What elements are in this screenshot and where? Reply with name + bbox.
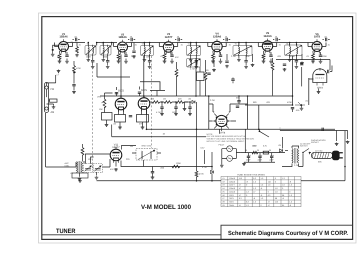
capacitor C51	[237, 101, 240, 102]
label T7 lab	[65, 162, 70, 165]
wire tube-stub 63.5	[55, 43, 73, 47]
wire v-205seg	[205, 60, 207, 96]
svg-text:85: 85	[282, 204, 284, 207]
resistor R34	[102, 113, 113, 121]
capacitor Ct131	[131, 38, 132, 41]
svg-text:-8: -8	[246, 180, 248, 183]
wire wt178	[175, 39, 182, 41]
node j239-96	[238, 95, 240, 97]
capacitor can-cap 193.5	[195, 61, 198, 62]
svg-text:47: 47	[239, 187, 241, 190]
wire v-345 down	[344, 131, 346, 181]
svg-text:V6: V6	[222, 194, 224, 197]
svg-text:47: 47	[239, 184, 241, 187]
resistor R13 cathode	[212, 54, 215, 60]
ground G71	[242, 163, 246, 166]
wire tube-stub 267.5	[258, 43, 276, 47]
courtesy box	[221, 225, 353, 239]
node j196-96	[195, 95, 197, 97]
label lt131	[130, 36, 134, 39]
wire R1 top	[73, 61, 75, 84]
capacitor C70 filter	[247, 156, 250, 157]
wire w-v10	[309, 68, 320, 79]
label cap40c	[269, 159, 274, 162]
wire wc4176	[175, 102, 177, 113]
ground G25	[319, 60, 323, 63]
svg-text:33K: 33K	[318, 161, 322, 164]
wire w-c51	[238, 96, 240, 104]
power transformer T9	[292, 148, 299, 164]
svg-text:V4: V4	[222, 187, 224, 190]
wire wt276	[273, 39, 280, 41]
coil L1	[141, 151, 144, 159]
wire lamp loop	[222, 149, 241, 159]
svg-text:2.2M: 2.2M	[210, 99, 215, 102]
label pl lab	[219, 144, 226, 147]
resistor R10 cathode	[58, 54, 61, 60]
svg-text:0: 0	[246, 194, 247, 197]
ground G13	[211, 60, 215, 63]
wire w-tv0	[60, 51, 68, 60]
capacitor Ct276	[276, 38, 277, 41]
tube V4 12BA6 2nd IF	[212, 33, 222, 54]
wire B+ bus y96	[100, 95, 293, 97]
resistor R42	[164, 101, 172, 104]
resistor R14 cathode	[262, 54, 265, 60]
ground G-227	[225, 65, 229, 68]
node j208.8-96	[208, 95, 210, 97]
wire w-r22	[199, 67, 201, 96]
ground G-board	[78, 180, 82, 183]
resistor R62	[81, 148, 84, 156]
label R1 val	[76, 67, 81, 70]
capacitor C71 filter	[258, 156, 261, 157]
label AM ant	[51, 111, 55, 114]
wire h-90 seg	[150, 91, 165, 97]
wire w-g51	[185, 102, 189, 108]
ground G32	[141, 126, 145, 129]
svg-text:20: 20	[269, 149, 271, 152]
label lt276	[275, 36, 279, 39]
wire v-227seg	[226, 54, 228, 60]
wire v-204 stub	[204, 150, 206, 164]
wire wt325.5	[323, 39, 330, 41]
wire top-bus 271-313	[271, 43, 313, 46]
label c71v	[261, 154, 263, 157]
svg-text:-8: -8	[261, 194, 263, 197]
capacitor C13 bypass	[219, 55, 222, 56]
label phono lab	[311, 139, 326, 142]
wire v-292	[292, 56, 294, 105]
ground G22	[170, 60, 174, 63]
svg-text:V5: V5	[222, 190, 224, 193]
wire conv in	[46, 113, 76, 167]
svg-text:19T8: 19T8	[229, 194, 233, 197]
wire can-under 293	[290, 55, 297, 60]
node j-196-129	[196, 129, 198, 131]
ground G23	[283, 68, 287, 71]
resistor R15 cathode	[312, 54, 315, 60]
svg-text:47K: 47K	[139, 123, 143, 126]
ground G4176	[174, 113, 178, 116]
svg-text:6.3: 6.3	[253, 177, 256, 180]
wire tube-stub 317.0	[308, 43, 326, 47]
wire wc4190	[189, 102, 191, 113]
IF transformer T4 2nd IF upper	[187, 45, 201, 56]
wire w-v10 gnd	[318, 89, 320, 91]
node bus-j 190.7	[190, 42, 192, 44]
ground G-R1	[72, 91, 76, 94]
svg-text:0: 0	[261, 204, 262, 207]
wire v-347	[347, 131, 349, 140]
svg-text:TUBE SOCKET VOLTAGES: TUBE SOCKET VOLTAGES	[237, 173, 265, 176]
svg-text:98: 98	[282, 194, 284, 197]
label bus-lbl 134.5	[135, 43, 138, 46]
ground G21	[124, 60, 128, 63]
tube V11 12AT7 osc	[110, 147, 122, 163]
label vol lab	[97, 96, 102, 99]
ground G-214	[212, 69, 216, 72]
wire top-bus 126-166	[126, 43, 166, 46]
ground G4190	[188, 113, 192, 116]
node j258.8-129.3	[258, 129, 260, 131]
arrow T8 tuning	[138, 150, 155, 160]
resistor R32 grid	[137, 115, 149, 123]
wire v-146 drop	[146, 110, 148, 129]
ground G12	[163, 60, 167, 63]
ground G34	[105, 124, 109, 127]
wire h-129	[147, 128, 336, 130]
capacitor C-v7top	[115, 93, 118, 94]
node j190-102	[189, 101, 191, 103]
pilot lamp PL1	[227, 146, 233, 152]
node j162-102	[161, 101, 163, 103]
wire w-c55	[292, 109, 294, 112]
svg-text:SWITCH: SWITCH	[300, 145, 308, 148]
svg-text:-8: -8	[289, 180, 291, 183]
svg-text:1.2: 1.2	[289, 184, 292, 187]
label V7 lab	[118, 90, 125, 93]
svg-text:1.2: 1.2	[261, 184, 264, 187]
svg-text:V8: V8	[222, 200, 224, 203]
wire can-under2 105.5	[107, 62, 109, 65]
svg-text:0: 0	[282, 187, 283, 190]
schematic border frame	[42, 17, 353, 240]
wire v-252seg	[252, 54, 254, 62]
wire tube-stub 217.0	[208, 43, 226, 47]
ground G11	[117, 60, 121, 63]
label cap40b	[258, 159, 263, 162]
svg-text:-8: -8	[289, 204, 291, 207]
wire v-301	[301, 67, 303, 86]
resistor R0 ant shunt	[50, 99, 58, 102]
wire osc line	[122, 146, 162, 154]
node n1	[259, 131, 261, 133]
wire can-under 147	[144, 55, 149, 60]
svg-text:12BA6: 12BA6	[118, 36, 127, 39]
ground can-gnd2 105.5	[106, 65, 110, 68]
resistor R71 filter	[252, 151, 258, 154]
wire w-r23	[272, 58, 274, 96]
svg-text:T4: T4	[188, 43, 190, 46]
label V8 lab	[141, 89, 148, 92]
svg-text:0: 0	[275, 177, 276, 180]
ground can-gnd2 147	[148, 65, 152, 68]
svg-text:12AT7: 12AT7	[112, 146, 120, 149]
rectifier D3 selenium	[280, 149, 283, 152]
label bus-lbl 228.5	[229, 43, 232, 46]
label V11 lab1	[114, 144, 119, 147]
wire v-245 link	[244, 129, 246, 152]
svg-text:12BA6: 12BA6	[213, 35, 222, 38]
pilot lamp PL2	[227, 156, 233, 162]
label r44v	[199, 173, 204, 176]
label net 1B	[163, 133, 166, 136]
IF transformer T2 FM det B	[100, 45, 111, 56]
tube V8 50C5 audio out	[138, 96, 150, 112]
label b2	[257, 149, 259, 152]
label T7 lab2	[65, 165, 71, 168]
svg-text:1M: 1M	[118, 56, 121, 59]
wire v-160seg	[159, 82, 161, 91]
potentiometer arrow R33	[102, 101, 105, 103]
svg-text:1.2: 1.2	[253, 180, 256, 183]
ground G24	[269, 60, 273, 63]
node bus-j 88.3	[88, 42, 90, 44]
svg-text:12BA6: 12BA6	[229, 187, 235, 190]
node bus-j 149.6	[149, 42, 151, 44]
svg-text:-B-: -B-	[328, 43, 331, 46]
wire w-r62	[82, 144, 84, 161]
wire w-d1b	[196, 177, 198, 181]
wire w-d2	[211, 152, 213, 181]
node j247.5-96	[247, 95, 249, 97]
label V11 lab2	[112, 146, 120, 149]
wire ratio box wires	[209, 96, 248, 129]
ground can-gnd2 193.5	[195, 65, 199, 68]
ground G62	[95, 176, 99, 179]
label cap40a	[246, 159, 251, 162]
variable capacitor C62 tuning gang FM	[93, 164, 102, 173]
label lt75.5	[74, 36, 78, 39]
svg-text:6.3: 6.3	[246, 200, 249, 203]
wire ant-fm wire	[47, 75, 56, 86]
capacitor C4162 chain	[160, 107, 163, 108]
label can-lbl T5	[235, 43, 237, 46]
capacitor C4176 chain	[174, 107, 177, 108]
resistor R11 cathode	[117, 54, 120, 60]
tube V1 12BA6 RF amp	[59, 33, 69, 54]
capacitor C12 bypass	[170, 55, 173, 56]
svg-text:1.2: 1.2	[261, 197, 264, 200]
wire power bus	[240, 152, 285, 154]
wire lamp-bottom stub	[221, 158, 223, 164]
switch S1 on-off	[302, 149, 310, 154]
svg-text:19T8: 19T8	[314, 36, 321, 39]
svg-text:4.7M: 4.7M	[202, 166, 207, 169]
ground G-drop77	[75, 54, 79, 57]
label can-lbl T1	[87, 43, 89, 46]
tube V6 19T8 det	[312, 33, 322, 54]
node bus-j 196.3	[196, 42, 198, 44]
svg-text:110: 110	[239, 177, 242, 180]
svg-text:6.3: 6.3	[239, 197, 242, 200]
svg-text:1.2: 1.2	[246, 204, 249, 207]
wire wc71	[259, 153, 261, 163]
svg-text:OSC COIL: OSC COIL	[142, 145, 153, 148]
wire v-308	[308, 78, 310, 105]
wire tuning gang dashed link 2	[151, 56, 153, 148]
node input terminal	[52, 49, 54, 51]
ground can-gnd2 90.5	[91, 65, 95, 68]
ground G-ant	[57, 70, 61, 73]
capacitor can-cap 242.5	[244, 61, 247, 62]
svg-text:-B-: -B-	[135, 43, 138, 46]
wire can-under2 293	[295, 62, 297, 65]
wire can-under2 90.5	[92, 62, 94, 65]
svg-text:1M: 1M	[130, 145, 133, 148]
svg-text:AM: AM	[51, 111, 55, 114]
resistor R31 grid	[115, 115, 126, 123]
wire v-121-drop	[120, 55, 122, 97]
wire v-214seg	[213, 60, 215, 67]
coil L2	[150, 151, 153, 159]
capacitor C31	[129, 116, 132, 117]
svg-text:2.2M: 2.2M	[294, 164, 299, 167]
ground G82	[346, 141, 350, 144]
wire w-drop134	[133, 43, 135, 51]
wire can-under 105.5	[103, 55, 107, 60]
wire w-d1 long	[196, 102, 198, 171]
capacitor Ct75.5	[76, 38, 77, 41]
svg-text:12AU6: 12AU6	[263, 35, 272, 38]
wire top-bus 172-214	[172, 43, 214, 46]
wire h-59-right	[276, 59, 330, 61]
tube V9 19T8 ratio detector	[212, 114, 231, 132]
wire can-under 193.5	[191, 55, 197, 60]
ground G15	[311, 60, 315, 63]
resistor R72 filter	[263, 151, 269, 154]
wire can-under2 193.5	[195, 62, 197, 65]
svg-text:-B-: -B-	[181, 43, 184, 46]
tube V3 12AT7 converter	[163, 33, 173, 54]
transformer T7 antenna coil	[77, 161, 83, 173]
svg-text:FM: FM	[51, 88, 55, 91]
svg-text:-8: -8	[282, 197, 284, 200]
ground can-gnd 90.5	[87, 59, 91, 62]
tube V5 12AU6 3rd IF	[262, 32, 272, 53]
svg-text:2.2M: 2.2M	[231, 55, 236, 58]
capacitor C24	[328, 70, 329, 73]
capacitor C56 on bus	[322, 128, 323, 131]
ground G-ant2	[52, 106, 56, 109]
wire w-v8top	[140, 87, 145, 98]
wire v-280-drop	[279, 127, 281, 131]
ground G81	[335, 143, 339, 146]
resistor R44 avc	[195, 171, 198, 177]
capacitor can-cap 90.5	[91, 61, 94, 62]
svg-text:470K: 470K	[57, 56, 62, 59]
title TUNER	[56, 228, 76, 235]
svg-text:4.7M: 4.7M	[156, 111, 161, 114]
wire h-130 right	[280, 130, 348, 132]
notes text	[207, 133, 255, 143]
svg-text:1.0: 1.0	[268, 184, 271, 187]
svg-text:-8: -8	[261, 187, 263, 190]
ground G-302	[300, 62, 304, 65]
wire w-pot-gnd	[301, 106, 303, 107]
svg-text:470K: 470K	[76, 67, 81, 70]
wire w-tv3	[213, 51, 221, 60]
svg-text:470K: 470K	[199, 173, 204, 176]
svg-text:1M: 1M	[163, 98, 166, 101]
label can-lbl T6	[286, 43, 288, 46]
svg-text:30: 30	[257, 149, 259, 152]
ground can-gnd 147	[143, 59, 147, 62]
wire ant-link wire	[47, 89, 54, 105]
wire w-tv2	[165, 51, 173, 60]
svg-text:35W4: 35W4	[229, 204, 234, 207]
ground G20	[65, 60, 69, 63]
ground G-drop134	[132, 55, 136, 58]
svg-text:1.0: 1.0	[289, 194, 292, 197]
resistor R33 vol	[103, 99, 106, 108]
wire drop-219	[218, 129, 220, 134]
ground G23	[219, 60, 223, 63]
svg-text:33K: 33K	[236, 97, 240, 100]
label can-lbl T3	[142, 43, 144, 46]
resistor R41	[152, 101, 160, 104]
svg-text:WITH 117V AC LINE. NO SIGNAL I: WITH 117V AC LINE. NO SIGNAL INPUT.	[207, 140, 246, 143]
svg-text:12BA6: 12BA6	[59, 36, 68, 39]
svg-text:4.7M: 4.7M	[190, 68, 195, 71]
capacitor C-drop134	[132, 51, 135, 52]
svg-text:98: 98	[275, 197, 277, 200]
node j292.5-96	[292, 95, 294, 97]
capacitor C63	[151, 172, 154, 173]
svg-text:100K: 100K	[322, 55, 327, 58]
capacitor can-cap 105.5	[106, 61, 109, 62]
svg-text:0: 0	[275, 180, 276, 183]
label lt325.5	[324, 36, 328, 39]
label phono lab2	[311, 141, 320, 144]
ground G-252	[251, 64, 255, 67]
resistor R12 cathode	[163, 54, 166, 60]
capacitor C4190 chain	[188, 107, 191, 108]
svg-text:1.0: 1.0	[275, 187, 278, 190]
ground G4162	[160, 113, 164, 116]
wire lower rail left	[97, 180, 222, 182]
wire w-r34	[105, 93, 113, 124]
svg-text:470K: 470K	[287, 101, 292, 104]
wire v-196	[195, 58, 197, 96]
ground G14	[262, 60, 266, 63]
wire v-143-rail	[143, 160, 145, 167]
svg-text:47K: 47K	[110, 168, 114, 171]
svg-text:40: 40	[245, 149, 247, 152]
svg-text:47K: 47K	[175, 56, 179, 59]
wire varcap top link	[85, 154, 110, 164]
wire top-bus 221-264	[221, 43, 264, 46]
ground can-gnd 293	[288, 59, 292, 62]
node j-212-166	[211, 166, 213, 168]
node bus-j 103.3	[103, 42, 105, 44]
label b1	[245, 149, 247, 152]
svg-text:50C5: 50C5	[141, 89, 148, 92]
label V10 lab	[317, 87, 324, 90]
label bus-lbl 327.5	[328, 43, 331, 46]
capacitor can-cap 147	[148, 61, 151, 62]
